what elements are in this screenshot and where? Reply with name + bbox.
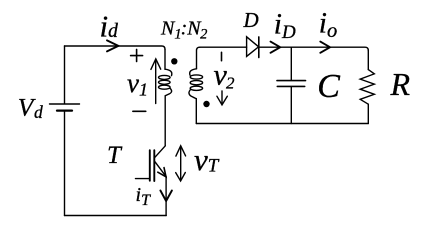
minus sign primary (133, 110, 146, 112)
wire secondary lower vertical (195, 99, 197, 124)
secondary winding loop 1 (190, 75, 202, 79)
dot secondary winding (203, 101, 209, 107)
wire bottom horizontal (65, 215, 167, 217)
svg-text:T: T (107, 142, 123, 169)
wire resistor branch upper (367, 51, 369, 70)
wire top-left horizontal (65, 46, 166, 49)
wire secondary top vertical (197, 47, 200, 69)
transistor T emitter arrowhead (158, 168, 166, 177)
svg-text:N1:N2: N1:N2 (160, 18, 207, 43)
wire primary lower vertical to transistor (164, 96, 166, 146)
primary winding entry bulge (165, 69, 172, 75)
secondary winding loop 3 (190, 86, 202, 90)
transistor T gate lead (136, 178, 150, 180)
svg-text:D: D (243, 8, 259, 32)
diode D triangle (247, 37, 259, 57)
i_T arrowhead chevron (160, 191, 172, 202)
secondary winding entry bulge (190, 69, 197, 75)
wire secondary bottom horizontal (196, 123, 368, 125)
capacitor C bottom plate (277, 85, 304, 87)
wire secondary top horizontal left of diode (200, 46, 247, 48)
resistor R zigzag (360, 70, 374, 105)
plus sign primary (131, 49, 143, 61)
wire battery upper vertical (64, 46, 66, 103)
diode D cathode bar (258, 37, 260, 58)
capacitor C top plate (277, 80, 306, 82)
v2 arrow shaft (221, 91, 223, 104)
v_T double arrow shaft (180, 148, 182, 180)
secondary winding loop 2 (190, 81, 202, 85)
dot primary winding (171, 58, 177, 64)
i_D arrowhead chevron (271, 42, 281, 53)
i_o arrowhead chevron (320, 42, 330, 53)
v2 top tick (221, 52, 223, 60)
svg-text:C: C (317, 68, 340, 105)
transistor T collector diagonal (155, 146, 165, 157)
secondary winding exit bulge (189, 89, 196, 98)
transistor T main bar (153, 150, 155, 181)
primary winding loop 1 (159, 75, 171, 79)
wire resistor branch lower (367, 104, 369, 123)
v_T arrowhead bottom (176, 173, 186, 182)
transistor T emitter diagonal (155, 162, 166, 177)
battery V_d short plate (57, 109, 72, 111)
wire emitter vertical (165, 177, 167, 216)
battery V_d long plate (50, 103, 80, 105)
primary winding loop 3 (159, 85, 171, 89)
v2 arrowhead (217, 96, 227, 105)
i_d arrowhead chevron (107, 40, 118, 51)
wire battery lower vertical (64, 112, 66, 216)
primary winding exit bulge (165, 88, 171, 96)
wire secondary top horizontal right of diode (259, 47, 369, 50)
v1 arrow shaft (155, 60, 157, 104)
wire capacitor branch lower (290, 87, 292, 124)
v1 arrowhead (151, 59, 161, 70)
transistor T gate bar (149, 150, 151, 181)
wire primary top vertical (164, 49, 166, 69)
wire capacitor branch upper (290, 47, 292, 80)
primary winding loop 2 (159, 80, 171, 84)
v_T arrowhead top (176, 146, 186, 156)
svg-text:R: R (390, 66, 411, 102)
